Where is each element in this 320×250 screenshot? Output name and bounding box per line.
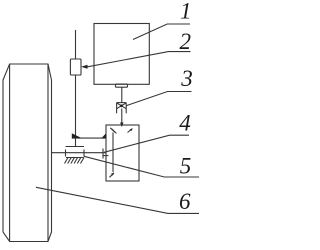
svg-text:2: 2 (180, 29, 192, 54)
svg-text:6: 6 (179, 189, 191, 214)
svg-text:5: 5 (180, 154, 192, 179)
svg-text:3: 3 (180, 66, 193, 91)
svg-text:4: 4 (179, 110, 191, 135)
svg-text:1: 1 (180, 0, 192, 24)
